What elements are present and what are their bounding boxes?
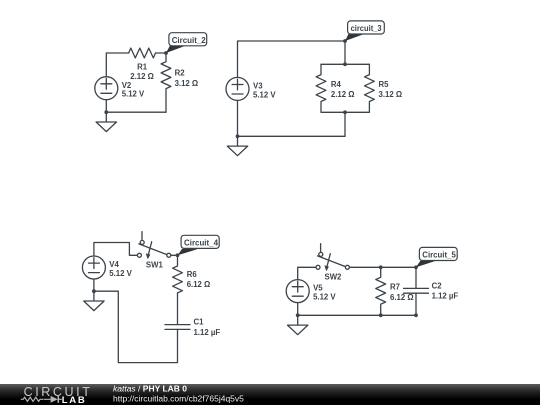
label V4 xyxy=(109,260,132,278)
callout circuit_3 xyxy=(345,21,384,41)
label SW2 xyxy=(325,273,343,282)
svg-text:3.12 Ω: 3.12 Ω xyxy=(379,90,403,99)
node V2 bottom xyxy=(104,110,108,114)
svg-text:R1: R1 xyxy=(137,62,148,71)
svg-text:6.12 Ω: 6.12 Ω xyxy=(187,280,211,289)
voltage source V4 xyxy=(82,256,105,279)
svg-text:5.12 V: 5.12 V xyxy=(122,90,145,99)
callout Circuit_4 xyxy=(178,235,220,255)
junction top bus xyxy=(343,62,347,66)
svg-text:5.12 V: 5.12 V xyxy=(253,90,276,99)
label V2 xyxy=(122,81,145,99)
node V3 bottom xyxy=(236,134,240,138)
label R2 xyxy=(175,68,199,87)
wire V5 bottom xyxy=(297,303,299,316)
svg-text:LAB: LAB xyxy=(62,395,87,405)
svg-text:V5: V5 xyxy=(313,284,323,293)
label R5 xyxy=(379,80,403,99)
svg-text:kattas / PHY LAB 0: kattas / PHY LAB 0 xyxy=(113,384,187,394)
svg-text:1.12 µF: 1.12 µF xyxy=(194,328,221,337)
capacitor C1 xyxy=(165,325,190,330)
svg-text:V3: V3 xyxy=(253,82,263,91)
svg-text:6.12 Ω: 6.12 Ω xyxy=(390,293,414,302)
wire top bus xyxy=(321,63,369,65)
voltage source V2 xyxy=(95,77,118,100)
wire parallel block down xyxy=(344,112,346,136)
footer bar xyxy=(0,384,540,405)
junction R7 top xyxy=(379,265,383,269)
junction R7 bottom xyxy=(379,313,383,317)
voltage source V5 xyxy=(286,280,309,303)
voltage source V3 xyxy=(226,77,249,100)
svg-text:C1: C1 xyxy=(194,318,205,327)
wire V3 bottom xyxy=(237,100,239,136)
resistor R4 xyxy=(316,64,326,111)
svg-text:SW1: SW1 xyxy=(146,261,164,270)
node junction circuit1 xyxy=(164,51,168,55)
svg-text:V2: V2 xyxy=(122,81,132,90)
resistor R5 xyxy=(365,64,375,111)
junction bottom bus xyxy=(343,110,347,114)
node junction circuit4 xyxy=(414,265,418,269)
capacitor C2 xyxy=(404,288,429,293)
svg-text:V4: V4 xyxy=(109,260,119,269)
label V5 xyxy=(313,284,336,302)
switch SW1 xyxy=(137,232,170,259)
callout Circuit_2 xyxy=(166,33,207,53)
resistor R2 xyxy=(161,53,171,112)
node junction circuit2 xyxy=(343,39,347,43)
svg-text:5.12 V: 5.12 V xyxy=(109,269,132,278)
wire SW2 to node xyxy=(349,266,416,268)
ground circuit3 xyxy=(84,291,104,310)
svg-text:2.12 Ω: 2.12 Ω xyxy=(130,72,154,81)
wire SW1 to node xyxy=(171,254,178,256)
svg-text:SW2: SW2 xyxy=(325,273,343,282)
wire bottom circuit2 xyxy=(238,135,346,137)
wire R1 to node xyxy=(156,52,167,54)
svg-text:circuit_3: circuit_3 xyxy=(351,23,382,33)
ground circuit4 xyxy=(288,315,308,334)
node V4 bottom xyxy=(92,289,96,293)
svg-text:R4: R4 xyxy=(331,80,342,89)
label R6 xyxy=(187,270,211,289)
logo CIRCUIT text xyxy=(24,385,93,399)
wire bottom bus xyxy=(321,111,369,113)
label SW1 xyxy=(146,261,164,270)
resistor R6 xyxy=(173,255,183,324)
callout Circuit_5 xyxy=(416,247,457,267)
label V3 xyxy=(253,82,276,100)
svg-text:R7: R7 xyxy=(390,283,400,292)
junction C2 bottom xyxy=(414,313,418,317)
ground circuit2 xyxy=(227,136,247,155)
node junction circuit3 xyxy=(176,253,180,257)
wire V3 top to node xyxy=(238,41,346,77)
wire V2 bottom xyxy=(105,100,107,113)
wire bottom circuit4 xyxy=(298,314,416,316)
svg-text:2.12 Ω: 2.12 Ω xyxy=(331,90,355,99)
label R7 xyxy=(390,283,414,302)
wire bottom circuit1 xyxy=(106,111,166,113)
logo diode xyxy=(44,396,62,403)
svg-text:Circuit_4: Circuit_4 xyxy=(184,237,218,247)
switch SW2 xyxy=(316,244,349,271)
footer title line xyxy=(113,384,187,394)
svg-text:5.12 V: 5.12 V xyxy=(313,293,336,302)
label R1 xyxy=(130,62,154,81)
svg-text:http://circuitlab.com/cb2f765j: http://circuitlab.com/cb2f765j4q5v5 xyxy=(113,394,244,404)
wire V2 top to R1 xyxy=(106,53,128,77)
resistor R7 xyxy=(376,267,386,315)
svg-text:R2: R2 xyxy=(175,68,186,77)
label C2 xyxy=(432,281,459,300)
logo resistor zigzag xyxy=(21,397,44,401)
svg-text:C2: C2 xyxy=(432,281,443,290)
wire V4 top to SW1 xyxy=(94,243,137,257)
wire C2 top lead xyxy=(415,267,417,288)
wire V4 bottom xyxy=(93,279,95,291)
label R4 xyxy=(331,80,355,99)
svg-text:R6: R6 xyxy=(187,270,198,279)
svg-text:Circuit_2: Circuit_2 xyxy=(172,35,206,45)
svg-text:R5: R5 xyxy=(379,80,390,89)
svg-text:3.12 Ω: 3.12 Ω xyxy=(175,79,199,88)
label C1 xyxy=(194,318,221,337)
node V5 bottom xyxy=(296,313,300,317)
wire node down to parallel block xyxy=(344,41,346,64)
wire C2 bottom lead xyxy=(415,293,417,315)
footer url line xyxy=(113,394,244,404)
ground circuit1 xyxy=(96,112,116,131)
svg-text:1.12 µF: 1.12 µF xyxy=(432,292,459,301)
resistor R1 xyxy=(129,48,156,58)
logo LAB text xyxy=(62,395,87,405)
wire V5 top to SW2 xyxy=(298,267,316,279)
svg-text:Circuit_5: Circuit_5 xyxy=(422,250,456,260)
wire C1 bottom loop xyxy=(94,291,178,362)
